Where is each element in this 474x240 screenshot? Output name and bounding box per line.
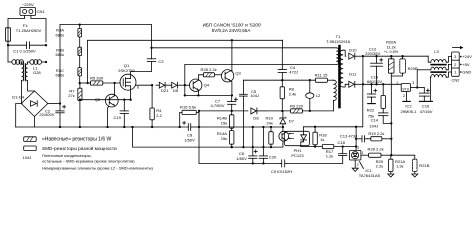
wire secondary fb line	[304, 126, 363, 128]
svg-text:CN2: CN2	[451, 77, 460, 82]
resistor R25	[203, 73, 221, 77]
wire fb column	[390, 122, 392, 155]
svg-text:220/35V: 220/35V	[365, 51, 380, 56]
transformer T1 primary	[333, 48, 339, 65]
wire opto led top	[303, 127, 305, 135]
diode D11	[346, 81, 363, 87]
resistor R14A	[230, 128, 234, 148]
svg-text:Q3: Q3	[235, 71, 241, 76]
wire Q4 emitter	[184, 90, 200, 96]
fuse F1	[6, 28, 11, 42]
transistor Q2	[105, 94, 118, 107]
capacitor C6	[249, 127, 258, 163]
resistor R21B	[413, 159, 417, 174]
svg-text:29M05-1: 29M05-1	[401, 109, 418, 114]
svg-text:15к: 15к	[221, 120, 228, 125]
wire emitter line	[185, 65, 232, 96]
svg-text:D8: D8	[253, 116, 259, 121]
resistor R19	[367, 137, 392, 141]
resistor R17	[322, 145, 356, 149]
resistor R3A	[78, 25, 82, 48]
wire startup top	[60, 23, 152, 25]
svg-text:2: 2	[403, 94, 405, 98]
svg-text:R25 2.2к: R25 2.2к	[201, 67, 217, 72]
svg-text:Немаркированные элементы (кром: Немаркированные элементы (кроме L2 - SMD…	[42, 165, 154, 170]
wire aux winding	[333, 80, 336, 111]
wire bridge bottom	[34, 117, 36, 128]
svg-text:R5 330: R5 330	[90, 76, 104, 81]
wire aux line right	[302, 110, 333, 112]
wire opto collector	[282, 127, 284, 131]
resistor R18	[313, 127, 317, 147]
svg-text:2.2к: 2.2к	[376, 164, 384, 169]
svg-text:104J: 104J	[369, 123, 378, 128]
svg-text:C1 0.1/250V: C1 0.1/250V	[13, 49, 36, 54]
svg-text:«Навесные» резисторы 1/6 W: «Навесные» резисторы 1/6 W	[42, 137, 112, 143]
svg-text:остальные - SMD-керамика (кром: остальные - SMD-керамика (кроме электрол…	[42, 159, 135, 164]
svg-text:C19: C19	[114, 115, 122, 120]
svg-text:+24V: +24V	[462, 54, 472, 59]
optocoupler PH1	[279, 131, 310, 145]
svg-text:TA76431AS: TA76431AS	[359, 173, 381, 178]
ground C16	[420, 100, 433, 102]
svg-text:D1-D4: D1-D4	[12, 95, 24, 100]
wire aux top line	[282, 79, 315, 81]
svg-text:1: 1	[362, 151, 364, 155]
svg-text:1: 1	[396, 81, 398, 85]
svg-text:680к: 680к	[55, 52, 64, 57]
svg-text:L2: L2	[316, 93, 321, 98]
wire CN1 right pin	[31, 16, 46, 42]
svg-text:R20B: R20B	[408, 66, 418, 71]
svg-text:PC123: PC123	[291, 153, 304, 158]
resistor R4	[150, 85, 154, 127]
svg-text:R22: R22	[367, 107, 375, 112]
ground IC1	[352, 168, 358, 171]
svg-text:27к: 27к	[68, 93, 75, 98]
regulator IC2	[401, 84, 410, 92]
zener D7	[280, 111, 286, 127]
wire ground bus	[16, 126, 189, 128]
capacitor C14	[378, 109, 391, 124]
wire aux line mid	[266, 110, 291, 112]
wire Y line right	[286, 162, 342, 164]
svg-text:C16: C16	[422, 104, 430, 109]
zener DZ1	[156, 82, 165, 88]
legend symbol plain	[24, 146, 37, 151]
svg-text:Пленочные конденсаторы,: Пленочные конденсаторы,	[42, 153, 92, 158]
resistor R14B	[230, 111, 234, 128]
svg-text:Q2: Q2	[95, 97, 101, 102]
svg-text:D5: D5	[173, 88, 179, 93]
connector CN2	[452, 52, 460, 76]
svg-text:GND: GND	[462, 70, 471, 75]
resistor R5	[91, 81, 121, 85]
wire bridge minus	[16, 104, 22, 128]
svg-text:C20: C20	[269, 154, 277, 159]
svg-text:680к: 680к	[55, 32, 64, 37]
wire IC1 pin2	[354, 160, 356, 168]
svg-text:R28 2.2к: R28 2.2к	[368, 146, 384, 151]
svg-text:680/10V: 680/10V	[367, 79, 382, 84]
capacitor C4	[278, 48, 286, 80]
ground R21A	[388, 174, 394, 177]
inductor L3 core	[430, 64, 446, 73]
wire bridge plus	[48, 102, 61, 104]
transformer T1 core	[338, 45, 341, 109]
wire choke to bridge	[22, 81, 35, 104]
wire R21 link	[391, 155, 415, 159]
transistor Q3	[221, 70, 233, 82]
capacitor C15	[367, 84, 375, 103]
svg-text:C14: C14	[371, 117, 379, 122]
svg-text:STU: STU	[402, 87, 409, 91]
wire Q2 collector	[113, 82, 115, 96]
wire opto emitter	[282, 141, 284, 147]
svg-text:R9 220: R9 220	[290, 103, 304, 108]
svg-text:104J: 104J	[23, 155, 32, 160]
capacitor C18	[339, 145, 347, 163]
ground C15	[368, 103, 376, 105]
resistor R10	[269, 127, 273, 147]
diode D8	[251, 108, 266, 114]
svg-text:1к: 1к	[320, 137, 324, 142]
resistor R20B	[391, 56, 405, 76]
svg-text:C18: C18	[338, 140, 346, 145]
resistor R15	[179, 110, 201, 128]
svg-text:15к: 15к	[221, 136, 228, 141]
svg-text:3: 3	[357, 145, 359, 149]
resistor R9	[291, 109, 303, 113]
bridge rectifier D1-D4	[21, 91, 48, 117]
capacitor C19	[120, 99, 128, 127]
node +5V	[460, 64, 462, 66]
wire Y line left	[199, 127, 280, 165]
wire opto return W1	[133, 127, 283, 148]
inductor L2	[306, 80, 314, 112]
wire Q2 emitter	[108, 106, 109, 127]
shunt regulator IC1	[349, 150, 368, 160]
svg-text:T-9511S2916: T-9511S2916	[326, 39, 351, 44]
wire base line	[79, 99, 131, 101]
capacitor C20	[259, 127, 267, 163]
svg-text:~220V: ~220V	[22, 2, 34, 7]
legend symbol hatched	[24, 137, 37, 142]
wire C15 plus	[374, 89, 377, 92]
svg-text:4,7/50V: 4,7/50V	[211, 103, 225, 108]
svg-text:1.3к: 1.3к	[396, 164, 404, 169]
transistor Q4	[190, 79, 202, 91]
svg-text:C9 KX152H: C9 KX152H	[271, 169, 292, 174]
svg-text:47/16V: 47/16V	[420, 109, 433, 114]
wire snubber line	[150, 47, 282, 49]
node GND	[460, 71, 462, 73]
resistor R3B	[78, 47, 82, 67]
resistor R21A	[389, 155, 393, 174]
capacitor C13	[355, 136, 367, 142]
resistor R7	[78, 85, 82, 128]
wire aux line	[198, 110, 248, 112]
capacitor C1	[7, 42, 47, 49]
diode D5	[165, 82, 189, 88]
capacitor C8	[183, 121, 199, 130]
wire fb to D11 node	[362, 84, 364, 127]
capacitor C9	[280, 160, 286, 167]
inductor bead left	[8, 60, 24, 65]
svg-text:2.2: 2.2	[156, 113, 162, 118]
wire IC1 pointer	[360, 162, 364, 169]
ground R21B	[412, 174, 418, 177]
resistor R20A	[388, 56, 394, 123]
wire D10 D11 join	[362, 56, 364, 85]
svg-text:1/50V: 1/50V	[236, 156, 247, 161]
svg-text:1/50V: 1/50V	[184, 137, 195, 142]
svg-text:L3: L3	[434, 49, 439, 54]
wire IC2 gnd	[406, 92, 408, 102]
inductor bead right	[28, 60, 48, 65]
wire primary return	[185, 64, 336, 66]
wire gnd riser to L3	[429, 77, 431, 101]
svg-text:SMD-резисторы разной мощности: SMD-резисторы разной мощности	[42, 145, 117, 151]
svg-text:R15 5.6к: R15 5.6к	[180, 104, 196, 109]
svg-text:D11: D11	[349, 71, 357, 76]
svg-text:+/- 0.5%: +/- 0.5%	[384, 50, 399, 54]
svg-text:3: 3	[412, 81, 414, 85]
svg-text:C3: C3	[158, 59, 164, 64]
wire HV column	[59, 25, 61, 104]
wire CN1 left pin	[8, 16, 25, 29]
wire opto top line	[199, 126, 284, 128]
wire gate node	[79, 82, 91, 85]
svg-text:R19 2.2к: R19 2.2к	[368, 131, 384, 136]
wire Q3 collector	[230, 40, 232, 71]
svg-text:D10: D10	[349, 47, 357, 52]
wire rail drop to primary	[283, 40, 333, 48]
svg-text:680к: 680к	[55, 73, 64, 78]
inductor L3 w2	[417, 64, 451, 69]
svg-text:C13 473J: C13 473J	[340, 133, 357, 138]
resistor R3C	[78, 68, 82, 83]
capacitor C5	[240, 80, 248, 147]
svg-text:D7: D7	[289, 119, 295, 124]
svg-text:2SK2750: 2SK2750	[118, 68, 135, 73]
svg-text:G28: G28	[33, 70, 41, 75]
transformer T1 secondary	[340, 50, 346, 87]
svg-text:Q4: Q4	[204, 82, 210, 87]
wire Q1 source	[129, 89, 131, 100]
wire 24V rail	[363, 55, 428, 57]
wire Q4 collector	[198, 75, 203, 80]
wire rail riser	[87, 40, 89, 83]
arrow CN2	[453, 46, 464, 49]
wire main rail	[88, 39, 283, 41]
resistor R22	[381, 83, 385, 108]
capacitor C3	[147, 25, 156, 72]
svg-text:F1:: F1:	[23, 23, 29, 28]
wire Q1 source right	[136, 84, 153, 86]
wire Q1 drain	[131, 71, 152, 74]
resistor R8	[280, 80, 284, 112]
connector CN1	[20, 8, 36, 16]
wire snubber node line	[243, 79, 283, 81]
svg-text:ИБП CANON 'S100' и 'S200': ИБП CANON 'S100' и 'S200'	[203, 23, 262, 28]
svg-text:IC2: IC2	[405, 104, 412, 109]
wire aux drop	[198, 111, 200, 127]
wire Q3 emitter	[230, 81, 233, 97]
svg-text:22/400V: 22/400V	[39, 112, 54, 117]
transistor Q1 mosfet	[120, 74, 136, 90]
wire IC2 out	[411, 86, 425, 88]
svg-text:11.2к: 11.2к	[386, 44, 396, 49]
capacitor C12	[371, 56, 383, 85]
svg-text:+5V: +5V	[462, 62, 470, 67]
svg-text:2: 2	[357, 163, 359, 167]
node +24V	[460, 56, 462, 58]
inductor L3 w1	[428, 56, 451, 62]
resistor R11	[315, 78, 333, 82]
svg-text:R11 15: R11 15	[315, 73, 328, 78]
svg-text:104J: 104J	[250, 93, 259, 98]
capacitor C16	[419, 88, 429, 102]
capacitor C7	[228, 95, 238, 111]
diode D10	[349, 53, 364, 59]
wire 5V raw rail	[363, 83, 401, 85]
resistor R28	[369, 153, 393, 157]
svg-text:DZ1: DZ1	[161, 88, 169, 93]
svg-text:472J: 472J	[289, 70, 298, 75]
inductor L3 w3	[430, 72, 451, 77]
svg-text:2.4к: 2.4к	[289, 91, 297, 96]
svg-text:1.2к: 1.2к	[326, 154, 334, 159]
svg-text:24к: 24к	[267, 120, 274, 125]
svg-text:CN1: CN1	[37, 9, 46, 14]
svg-text:R21B: R21B	[419, 163, 429, 168]
wire left rail	[7, 42, 9, 62]
wire 5V riser	[416, 70, 418, 88]
svg-text:5V/0,2A 24V/0,55A: 5V/0,2A 24V/0,55A	[212, 28, 252, 33]
choke L1	[22, 62, 28, 81]
capacitor C2	[56, 104, 66, 128]
wire opto led bottom	[301, 140, 323, 148]
ground IC2	[403, 100, 410, 102]
svg-text:T1.25AH250V: T1.25AH250V	[16, 28, 42, 33]
wire fb riser	[355, 127, 357, 151]
